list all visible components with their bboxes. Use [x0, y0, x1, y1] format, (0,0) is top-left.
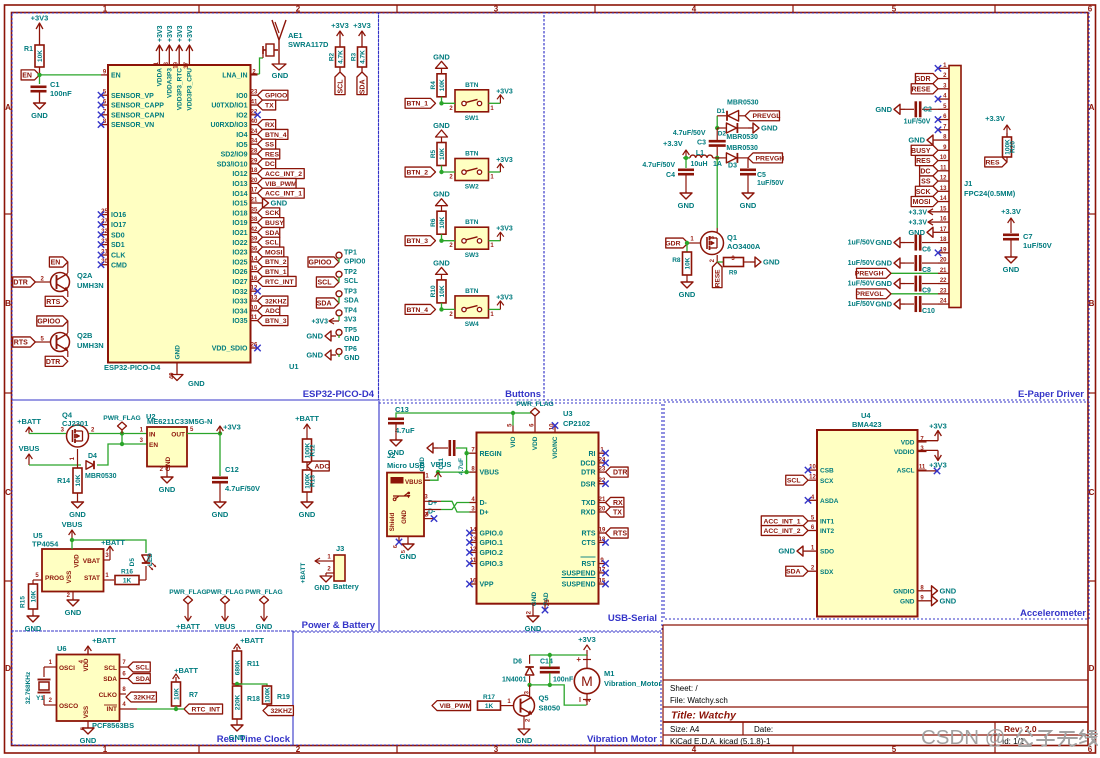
svg-text:DCD: DCD — [580, 461, 595, 468]
svg-text:10K: 10K — [31, 590, 38, 602]
svg-text:D: D — [1089, 664, 1095, 673]
svg-text:RESE: RESE — [715, 269, 722, 287]
svg-text:GND: GND — [433, 258, 450, 267]
svg-text:U1: U1 — [289, 362, 299, 371]
svg-text:PREVGL: PREVGL — [753, 113, 781, 120]
svg-text:4.7K: 4.7K — [360, 50, 367, 64]
svg-text:+3V3: +3V3 — [929, 422, 947, 431]
svg-text:GND: GND — [761, 124, 778, 133]
svg-text:DSR: DSR — [581, 481, 596, 488]
svg-text:21: 21 — [251, 198, 258, 204]
svg-text:GND: GND — [69, 510, 86, 519]
svg-text:CP2102: CP2102 — [563, 419, 590, 428]
svg-text:RTS: RTS — [582, 531, 596, 538]
svg-text:100nF: 100nF — [553, 677, 574, 684]
svg-text:CSDN @: CSDN @ — [921, 726, 1006, 749]
svg-text:GND: GND — [778, 547, 795, 556]
svg-text:RX: RX — [265, 122, 275, 129]
svg-text:UMH3N: UMH3N — [77, 281, 104, 290]
svg-text:SWRA117D: SWRA117D — [288, 40, 329, 49]
svg-text:24: 24 — [251, 129, 258, 135]
svg-text:+BATT: +BATT — [176, 622, 200, 631]
svg-text:RTC_INT: RTC_INT — [265, 279, 295, 286]
svg-text:TP5: TP5 — [344, 327, 357, 334]
svg-text:ME6211C33M5G-N: ME6211C33M5G-N — [147, 417, 212, 426]
svg-text:RX: RX — [613, 500, 623, 507]
svg-text:J2: J2 — [387, 451, 395, 460]
svg-text:+3V3: +3V3 — [331, 21, 349, 30]
svg-text:J1: J1 — [964, 179, 972, 188]
svg-text:UMH3N: UMH3N — [77, 341, 104, 350]
svg-text:GND: GND — [678, 201, 695, 210]
svg-text:4.7uF/50V: 4.7uF/50V — [642, 162, 675, 169]
svg-text:R6: R6 — [430, 218, 437, 227]
svg-text:+3V3: +3V3 — [353, 21, 371, 30]
svg-text:GPIO0: GPIO0 — [344, 259, 366, 266]
svg-text:PROG: PROG — [45, 575, 64, 582]
svg-text:BTN: BTN — [465, 82, 479, 89]
svg-text:SDA: SDA — [136, 676, 150, 683]
svg-text:BTN_2: BTN_2 — [265, 259, 287, 266]
svg-text:GND: GND — [165, 456, 172, 471]
svg-text:VBUS: VBUS — [431, 460, 452, 469]
svg-text:19: 19 — [599, 528, 606, 534]
svg-text:ACC_INT_1: ACC_INT_1 — [763, 518, 800, 525]
svg-text:SW4: SW4 — [465, 321, 479, 328]
svg-text:PWR_FLAG: PWR_FLAG — [516, 401, 554, 408]
svg-text:GND: GND — [875, 300, 892, 309]
svg-text:41: 41 — [251, 100, 258, 106]
svg-text:1uF/50V: 1uF/50V — [848, 240, 875, 247]
svg-text:L1: L1 — [696, 150, 704, 157]
svg-text:VBUS: VBUS — [19, 444, 40, 453]
svg-text:GND: GND — [531, 591, 538, 606]
svg-text:RES: RES — [986, 159, 1000, 166]
svg-text:MBR0530: MBR0530 — [85, 473, 117, 480]
svg-text:GNDIO: GNDIO — [893, 588, 914, 595]
svg-text:DTR: DTR — [46, 359, 60, 366]
svg-text:BTN_3: BTN_3 — [406, 238, 428, 245]
svg-text:VDD3P3_RTC: VDD3P3_RTC — [176, 68, 183, 111]
svg-text:IO18: IO18 — [232, 210, 247, 217]
svg-text:GND: GND — [159, 485, 176, 494]
svg-text:U4: U4 — [861, 411, 871, 420]
svg-text:IN: IN — [149, 432, 156, 439]
svg-text:SS: SS — [265, 142, 275, 149]
svg-text:SDO: SDO — [820, 549, 834, 556]
svg-text:TX: TX — [265, 102, 274, 109]
svg-text:10K: 10K — [174, 688, 181, 700]
svg-text:GND: GND — [314, 585, 330, 592]
svg-text:R15: R15 — [20, 596, 27, 608]
svg-text:CLK: CLK — [111, 253, 125, 260]
svg-text:IO26: IO26 — [232, 269, 247, 276]
svg-text:TX: TX — [613, 510, 622, 517]
svg-text:VDDA: VDDA — [157, 68, 164, 87]
svg-text:16: 16 — [940, 217, 947, 223]
svg-text:VDDIO: VDDIO — [894, 449, 915, 456]
svg-text:+BATT: +BATT — [240, 636, 264, 645]
svg-text:GND: GND — [272, 71, 289, 80]
svg-text:GND: GND — [344, 355, 360, 362]
svg-text:Size: A4: Size: A4 — [670, 725, 700, 734]
svg-text:6: 6 — [393, 545, 399, 548]
svg-text:1A: 1A — [713, 161, 722, 168]
svg-text:Vibration Motor: Vibration Motor — [587, 734, 657, 745]
svg-text:TP6: TP6 — [344, 346, 357, 353]
svg-text:R17: R17 — [483, 694, 495, 701]
svg-text:+3V3: +3V3 — [311, 319, 328, 326]
svg-text:C5: C5 — [757, 172, 766, 179]
svg-text:VSS: VSS — [66, 571, 73, 584]
svg-text:VIB_PWM: VIB_PWM — [440, 703, 472, 710]
svg-text:GPIOO: GPIOO — [309, 260, 333, 267]
svg-text:BTN_1: BTN_1 — [406, 101, 428, 108]
svg-text:11: 11 — [940, 165, 947, 171]
svg-text:SW1: SW1 — [465, 115, 479, 122]
svg-text:1: 1 — [103, 745, 108, 754]
svg-text:34: 34 — [251, 139, 258, 145]
svg-text:GND: GND — [525, 624, 542, 633]
svg-text:EN: EN — [111, 73, 121, 80]
svg-text:GND: GND — [400, 552, 417, 561]
svg-text:VIO/NC: VIO/NC — [552, 436, 559, 459]
svg-text:MOSI: MOSI — [265, 249, 282, 256]
svg-text:GND: GND — [940, 586, 957, 595]
svg-text:1K: 1K — [123, 577, 132, 584]
svg-text:GND: GND — [433, 52, 450, 61]
svg-text:Q2B: Q2B — [77, 331, 93, 340]
svg-text:3: 3 — [494, 745, 499, 754]
svg-text:SENSOR_CAPP: SENSOR_CAPP — [111, 103, 164, 110]
svg-text:RESE: RESE — [911, 86, 930, 93]
svg-text:U6: U6 — [57, 644, 67, 653]
svg-text:R18: R18 — [247, 696, 260, 703]
svg-text:DTR: DTR — [581, 470, 595, 477]
svg-text:+BATT: +BATT — [174, 666, 198, 675]
svg-text:FPC24(0.5MM): FPC24(0.5MM) — [964, 189, 1016, 198]
svg-text:GND: GND — [401, 510, 408, 524]
svg-text:C4: C4 — [666, 172, 675, 179]
svg-text:OSCO: OSCO — [59, 703, 78, 710]
svg-text:IO35: IO35 — [232, 318, 247, 325]
svg-text:D+: D+ — [480, 510, 489, 517]
svg-text:REGIN: REGIN — [480, 451, 502, 458]
svg-text:4: 4 — [692, 745, 697, 754]
svg-text:S8050: S8050 — [539, 704, 561, 713]
svg-text:TP3: TP3 — [344, 288, 357, 295]
svg-text:ADC: ADC — [315, 463, 330, 470]
svg-text:20: 20 — [940, 258, 947, 264]
svg-text:+3V3: +3V3 — [496, 226, 513, 233]
svg-text:SCL: SCL — [338, 79, 345, 94]
svg-text:R7: R7 — [189, 692, 198, 699]
svg-text:ASDA: ASDA — [820, 498, 839, 505]
svg-text:VDD: VDD — [901, 440, 915, 447]
svg-text:SW2: SW2 — [465, 184, 479, 191]
svg-text:35: 35 — [251, 207, 258, 213]
svg-text:20: 20 — [599, 507, 606, 513]
svg-text:+3V3: +3V3 — [223, 423, 241, 432]
svg-text:17: 17 — [251, 188, 258, 194]
svg-text:File: Watchy.sch: File: Watchy.sch — [670, 696, 728, 705]
svg-text:C3: C3 — [697, 140, 706, 147]
svg-text:14: 14 — [940, 196, 947, 202]
svg-text:Shield: Shield — [389, 513, 396, 532]
svg-text:PREVGL: PREVGL — [856, 291, 884, 298]
svg-text:AE1: AE1 — [288, 31, 303, 40]
svg-text:BTN_1: BTN_1 — [265, 269, 287, 276]
svg-text:10: 10 — [940, 155, 947, 161]
svg-text:+3V3: +3V3 — [929, 461, 947, 470]
svg-text:SCX: SCX — [820, 478, 834, 485]
svg-text:R16: R16 — [121, 569, 133, 576]
svg-text:C6: C6 — [922, 247, 931, 254]
svg-text:GND: GND — [299, 510, 316, 519]
svg-text:Title: Watchy: Title: Watchy — [671, 710, 737, 722]
svg-text:BTN_2: BTN_2 — [406, 169, 428, 176]
svg-text:SD3/IO10: SD3/IO10 — [217, 161, 248, 168]
svg-text:IO32: IO32 — [232, 289, 247, 296]
svg-text:15: 15 — [940, 206, 947, 212]
svg-text:Y1: Y1 — [36, 695, 44, 702]
svg-text:SCK: SCK — [916, 189, 931, 196]
svg-text:GND: GND — [679, 290, 696, 299]
svg-text:IO21: IO21 — [232, 230, 247, 237]
svg-text:+3V3: +3V3 — [167, 25, 174, 42]
svg-text:IO25: IO25 — [232, 259, 247, 266]
svg-text:R14: R14 — [57, 478, 70, 485]
svg-text:DC: DC — [920, 168, 930, 175]
svg-text:INT2: INT2 — [820, 528, 834, 535]
svg-text:+BATT: +BATT — [295, 414, 319, 423]
svg-text:RI: RI — [589, 451, 596, 458]
svg-text:18: 18 — [940, 237, 947, 243]
svg-text:SCL: SCL — [344, 278, 359, 285]
svg-text:D-: D- — [480, 500, 488, 507]
svg-text:GND: GND — [344, 336, 360, 343]
svg-text:RXD: RXD — [581, 510, 596, 517]
svg-text:VDD: VDD — [532, 436, 539, 450]
svg-text:MBR0530: MBR0530 — [726, 145, 758, 152]
svg-text:DTR: DTR — [13, 280, 27, 287]
svg-text:Q1: Q1 — [727, 233, 737, 242]
svg-text:IO0: IO0 — [236, 93, 247, 100]
svg-text:GPIO.3: GPIO.3 — [480, 561, 503, 568]
svg-text:C: C — [5, 488, 11, 497]
svg-text:IO13: IO13 — [232, 181, 247, 188]
svg-text:GND: GND — [740, 201, 757, 210]
svg-text:Vibration_Motor: Vibration_Motor — [604, 679, 661, 688]
svg-text:+: + — [576, 655, 581, 664]
svg-text:10K: 10K — [439, 148, 446, 160]
svg-text:220K: 220K — [235, 694, 242, 710]
svg-text:SDA: SDA — [344, 297, 359, 304]
svg-text:OUT: OUT — [171, 432, 185, 439]
svg-text:GND: GND — [875, 259, 892, 268]
svg-text:VIO: VIO — [510, 437, 517, 448]
svg-text:Accelerometer: Accelerometer — [1020, 608, 1086, 619]
svg-text:AO3400A: AO3400A — [727, 242, 761, 251]
svg-text:EN: EN — [51, 260, 61, 267]
svg-text:GND: GND — [188, 379, 205, 388]
svg-text:EN: EN — [149, 442, 158, 449]
svg-text:+3V3: +3V3 — [496, 157, 513, 164]
svg-text:MBR0530: MBR0530 — [726, 134, 758, 141]
svg-text:5: 5 — [892, 5, 897, 14]
svg-text:+3V3: +3V3 — [177, 25, 184, 42]
svg-text:D3: D3 — [728, 163, 737, 170]
svg-text:SDX: SDX — [820, 569, 834, 576]
svg-text:4.7uF/50V: 4.7uF/50V — [673, 130, 706, 137]
svg-text:+BATT: +BATT — [92, 636, 116, 645]
svg-text:+3.3V: +3.3V — [909, 209, 928, 216]
svg-text:R1: R1 — [24, 46, 33, 53]
svg-text:GDR: GDR — [915, 76, 931, 83]
svg-text:10K: 10K — [439, 216, 446, 228]
svg-text:C10: C10 — [922, 308, 935, 315]
svg-text:Buttons: Buttons — [505, 389, 541, 400]
svg-text:LED: LED — [147, 553, 154, 566]
svg-text:10: 10 — [251, 305, 258, 311]
svg-text:GND: GND — [875, 279, 892, 288]
svg-text:SENSOR_CAPN: SENSOR_CAPN — [111, 112, 164, 119]
svg-text:RST: RST — [582, 561, 597, 568]
svg-text:SDA: SDA — [360, 80, 367, 95]
svg-text:ESP32-PICO-D4: ESP32-PICO-D4 — [303, 389, 375, 400]
svg-text:Power & Battery: Power & Battery — [302, 620, 376, 631]
svg-text:R20: R20 — [1010, 141, 1017, 153]
svg-text:VDDA3P3: VDDA3P3 — [167, 68, 174, 98]
svg-text:21: 21 — [599, 497, 606, 503]
svg-text:GND: GND — [306, 332, 323, 341]
svg-text:32.768KHz: 32.768KHz — [25, 671, 32, 704]
svg-text:BUSY: BUSY — [265, 220, 284, 227]
svg-text:SDA: SDA — [265, 230, 279, 237]
svg-text:RTS: RTS — [613, 531, 627, 538]
svg-text:+3.3V: +3.3V — [1001, 207, 1021, 216]
svg-text:C14: C14 — [540, 659, 553, 666]
svg-text:M1: M1 — [604, 669, 614, 678]
svg-text:Date:: Date: — [754, 725, 773, 734]
svg-text:R5: R5 — [430, 149, 437, 158]
svg-text:680K: 680K — [235, 659, 242, 675]
svg-text:VBAT: VBAT — [83, 558, 100, 565]
svg-text:4: 4 — [692, 5, 697, 14]
svg-text:PWR_FLAG: PWR_FLAG — [245, 589, 283, 596]
svg-text:10K: 10K — [439, 285, 446, 297]
svg-text:SUSPEND: SUSPEND — [562, 582, 596, 589]
svg-text:MOSI: MOSI — [913, 199, 931, 206]
svg-text:SDA: SDA — [786, 569, 800, 576]
svg-text:11: 11 — [251, 315, 258, 321]
svg-text:OSCI: OSCI — [59, 665, 75, 672]
svg-text:+3V3: +3V3 — [496, 294, 513, 301]
svg-text:INT1: INT1 — [820, 519, 834, 526]
svg-text:SD1: SD1 — [111, 242, 125, 249]
svg-text:M: M — [581, 673, 593, 689]
svg-text:3V3: 3V3 — [344, 316, 357, 323]
svg-text:1uF/50V: 1uF/50V — [848, 301, 875, 308]
svg-text:D2: D2 — [718, 131, 727, 138]
svg-text:Micro USB: Micro USB — [387, 461, 426, 470]
svg-text:ADC: ADC — [265, 308, 280, 315]
svg-text:BTN_3: BTN_3 — [265, 318, 287, 325]
svg-text:Q2A: Q2A — [77, 271, 93, 280]
svg-text:INT: INT — [107, 706, 118, 713]
svg-text:U0TXD/IO1: U0TXD/IO1 — [211, 103, 247, 110]
svg-text:SENSOR_VN: SENSOR_VN — [111, 122, 154, 129]
svg-text:32KHZ: 32KHZ — [271, 708, 293, 715]
svg-text:14: 14 — [251, 256, 258, 262]
svg-text:GND: GND — [229, 733, 246, 742]
svg-text:SCL: SCL — [787, 478, 801, 485]
svg-text:GND: GND — [25, 624, 42, 633]
svg-text:GPIO.0: GPIO.0 — [480, 531, 503, 538]
svg-text:PWR_FLAG: PWR_FLAG — [169, 589, 207, 596]
svg-text:GND: GND — [516, 736, 533, 745]
svg-text:VPP: VPP — [480, 582, 494, 589]
svg-text:TP4: TP4 — [344, 307, 357, 314]
svg-text:10K: 10K — [75, 474, 82, 486]
svg-text:IO12: IO12 — [232, 171, 247, 178]
svg-text:STAT: STAT — [84, 575, 100, 582]
svg-text:MBR0530: MBR0530 — [727, 100, 759, 107]
svg-text:IO23: IO23 — [232, 250, 247, 257]
svg-text:TXD: TXD — [582, 500, 596, 507]
svg-text:R13: R13 — [310, 475, 317, 487]
svg-text:4.7uF/50V: 4.7uF/50V — [225, 484, 260, 493]
svg-text:IO34: IO34 — [232, 308, 247, 315]
svg-text:22: 22 — [940, 278, 947, 284]
svg-text:4.7K: 4.7K — [338, 50, 345, 64]
svg-text:16: 16 — [251, 276, 258, 282]
svg-text:E-Paper Driver: E-Paper Driver — [1018, 389, 1084, 400]
svg-text:R11: R11 — [247, 661, 260, 668]
svg-text:C7: C7 — [1023, 232, 1033, 241]
svg-text:CTS: CTS — [582, 540, 596, 547]
svg-text:TP2: TP2 — [344, 269, 357, 276]
svg-text:A: A — [5, 103, 11, 112]
svg-text:1uF/50V: 1uF/50V — [904, 118, 931, 125]
svg-text:BTN: BTN — [465, 288, 479, 295]
svg-text:GND: GND — [940, 596, 957, 605]
svg-text:SDA: SDA — [103, 676, 117, 683]
svg-text:ACC_INT_2: ACC_INT_2 — [763, 528, 800, 535]
svg-text:IO27: IO27 — [232, 279, 247, 286]
svg-text:29: 29 — [251, 158, 258, 164]
svg-text:ESP32-PICO-D4: ESP32-PICO-D4 — [104, 363, 161, 372]
svg-text:PWR_FLAG: PWR_FLAG — [103, 415, 141, 422]
svg-text:BTN: BTN — [465, 219, 479, 226]
svg-text:DC: DC — [265, 161, 275, 168]
svg-text:GND: GND — [763, 258, 780, 267]
svg-text:BTN_4: BTN_4 — [406, 307, 428, 314]
svg-text:23: 23 — [940, 288, 947, 294]
svg-text:TP4054: TP4054 — [32, 540, 59, 549]
svg-text:19: 19 — [174, 61, 180, 68]
svg-text:D4: D4 — [88, 453, 97, 460]
svg-text:GPIOO: GPIOO — [37, 319, 61, 326]
svg-text:GND: GND — [31, 111, 48, 120]
svg-text:1N4001: 1N4001 — [502, 677, 527, 684]
svg-text:21: 21 — [940, 268, 947, 274]
svg-text:J3: J3 — [336, 544, 344, 553]
svg-text:GND: GND — [875, 105, 892, 114]
svg-text:12: 12 — [809, 475, 816, 481]
svg-text:ACC_INT_1: ACC_INT_1 — [265, 191, 302, 198]
svg-text:R2: R2 — [329, 52, 336, 61]
